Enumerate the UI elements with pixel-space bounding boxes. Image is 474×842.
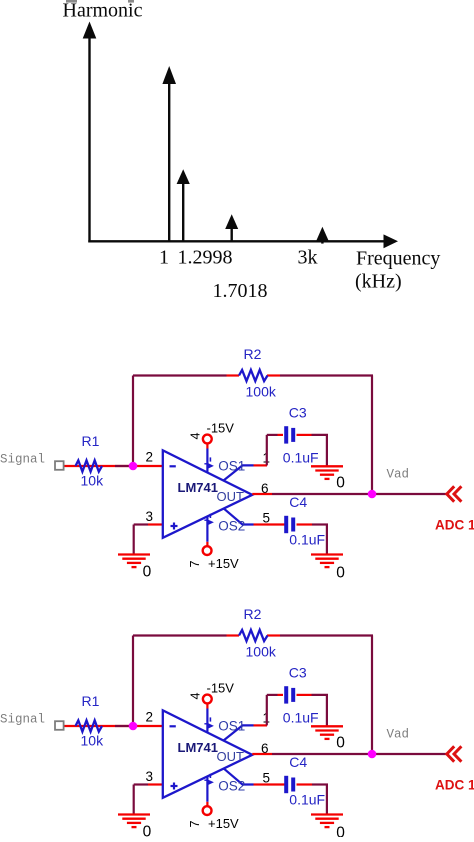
svg-text:Vad: Vad: [387, 727, 410, 741]
svg-text:0: 0: [336, 734, 345, 751]
pin 1 OS1 (circuit 1): [224, 465, 254, 480]
pin 4 V- (circuit 1): [206, 449, 208, 473]
svg-text:5: 5: [263, 770, 271, 785]
svg-text:0: 0: [336, 474, 345, 491]
svg-text:C3: C3: [289, 404, 307, 420]
svg-text:0: 0: [143, 563, 152, 580]
wire R2 right lead (circuit 2): [267, 634, 280, 636]
wire feedback right vertical (circuit 1): [371, 376, 373, 495]
svg-text:OUT: OUT: [217, 489, 245, 504]
svg-text:LM741: LM741: [178, 480, 218, 495]
resistor R2 (circuit 1): [239, 370, 268, 381]
pin 4 V- (circuit 2): [206, 709, 208, 733]
svg-text:4: 4: [189, 692, 203, 699]
wire C3 row (circuit 2): [267, 694, 278, 696]
wire feedback top (R2 net) (circuit 2): [133, 634, 227, 636]
svg-text:100k: 100k: [246, 644, 277, 660]
svg-text:0.1uF: 0.1uF: [289, 531, 325, 547]
svg-text:1.7018: 1.7018: [213, 280, 268, 302]
svg-text:LM741: LM741: [178, 740, 218, 755]
wire feedback left vertical (circuit 2): [132, 636, 134, 727]
svg-text:0.1uF: 0.1uF: [289, 791, 325, 807]
resistor R2 (circuit 2): [239, 630, 268, 641]
pin OS1 marker (circuit 2): [209, 717, 211, 721]
spectrum x-axis: [88, 240, 384, 242]
node junction Vad (circuit 1): [368, 490, 377, 499]
wire input row pin2 (circuit 1): [63, 465, 163, 467]
svg-text:+15V: +15V: [208, 556, 239, 571]
harmonic arrow 4 at 3k: [321, 238, 323, 244]
svg-text:C3: C3: [289, 664, 307, 680]
wire C4 to ground (circuit 1): [326, 525, 328, 554]
svg-text:2: 2: [146, 709, 154, 724]
node junction Vad (circuit 2): [368, 750, 377, 759]
pin 7 V+ (circuit 1): [206, 516, 208, 541]
svg-text:-15V: -15V: [207, 681, 235, 696]
wire feedback top (R2 net) (circuit 1): [133, 374, 227, 376]
svg-text:4: 4: [189, 432, 203, 439]
svg-text:OS1: OS1: [218, 719, 245, 734]
capacitor C4 (circuit 2): [284, 776, 288, 793]
off-page connector ADC 1 (circuit 2): [447, 746, 454, 761]
ground G2 (circuit 1): [311, 465, 343, 467]
node junction input (circuit 1): [129, 462, 138, 471]
wire R2 left lead (circuit 1): [227, 374, 240, 376]
ground G1 (circuit 2): [118, 813, 150, 815]
svg-text:7: 7: [188, 560, 202, 567]
wire C3 row (circuit 1): [267, 434, 278, 436]
wire pin3 row (circuit 2): [134, 783, 148, 785]
wire feedback left vertical (circuit 1): [132, 376, 134, 467]
port Signal (circuit 1): [55, 461, 64, 470]
svg-text:OS1: OS1: [218, 459, 245, 474]
pin 5 OS2 (circuit 2): [224, 768, 254, 784]
pin OS2 marker (circuit 2): [209, 774, 211, 778]
svg-text:C4: C4: [289, 494, 307, 510]
pin OS1 marker (circuit 1): [209, 457, 211, 461]
wire output pin6 (circuit 2): [252, 753, 272, 755]
svg-text:0: 0: [336, 824, 345, 837]
svg-text:2: 2: [146, 449, 154, 464]
off-page connector ADC 1 (circuit 1): [447, 486, 454, 501]
power +15V bubble (circuit 1): [203, 546, 212, 555]
power +15V bubble (circuit 2): [203, 806, 212, 815]
svg-text:-15V: -15V: [207, 421, 235, 436]
svg-text:+15V: +15V: [208, 816, 239, 831]
svg-text:ADC 1: ADC 1: [435, 777, 474, 792]
svg-text:3: 3: [146, 769, 154, 784]
svg-text:1: 1: [159, 247, 169, 269]
svg-text:0: 0: [143, 823, 152, 837]
svg-text:ADC 1: ADC 1: [435, 517, 474, 532]
pin 1 OS1 (circuit 2): [224, 725, 254, 740]
wire R2 right lead (circuit 1): [267, 374, 280, 376]
svg-text:0.1uF: 0.1uF: [283, 450, 319, 466]
capacitor C4 (circuit 1): [284, 516, 288, 533]
harmonic arrow 1 (fundamental): [168, 83, 170, 241]
wire C3 to ground (circuit 2): [326, 695, 328, 726]
svg-text:C4: C4: [289, 754, 307, 770]
svg-text:10k: 10k: [81, 473, 105, 489]
ground G3 (circuit 2): [311, 813, 343, 815]
wire C3 to ground (circuit 1): [326, 435, 328, 466]
pin 7 V+ (circuit 2): [206, 776, 208, 801]
svg-text:OUT: OUT: [217, 749, 245, 764]
svg-text:OS2: OS2: [218, 518, 245, 533]
svg-text:100k: 100k: [246, 384, 277, 400]
svg-text:OS2: OS2: [218, 778, 245, 793]
wire C4 row (circuit 2): [267, 783, 285, 785]
svg-text:3: 3: [146, 509, 154, 524]
capacitor C3 (circuit 1): [284, 426, 288, 443]
wire feedback right vertical (circuit 2): [371, 636, 373, 755]
wire output pin6 (circuit 1): [252, 493, 272, 495]
wire R2 left lead (circuit 2): [227, 634, 240, 636]
ground G2 (circuit 2): [311, 725, 343, 727]
harmonic arrow 3: [230, 228, 232, 241]
svg-text:Frequency: Frequency: [356, 248, 440, 270]
svg-text:0: 0: [336, 564, 345, 581]
svg-text:10k: 10k: [81, 733, 105, 749]
svg-text:3k: 3k: [298, 247, 318, 269]
svg-text:Harmonic: Harmonic: [63, 0, 143, 22]
op-amp U1 LM741 (circuit 1): [163, 450, 253, 538]
svg-text:5: 5: [263, 510, 271, 525]
svg-text:1.2998: 1.2998: [178, 247, 233, 269]
spectrum y-axis: [88, 37, 90, 243]
power -15V bubble (circuit 1): [203, 435, 212, 444]
resistor R1 (circuit 2): [76, 720, 103, 731]
ground G3 (circuit 1): [311, 553, 343, 555]
svg-text:R2: R2: [244, 606, 262, 622]
wire C4 to ground (circuit 2): [326, 785, 328, 814]
capacitor C3 (circuit 2): [284, 686, 288, 703]
wire pin1 riser (circuit 2): [266, 695, 268, 726]
svg-text:R2: R2: [244, 346, 262, 362]
svg-text:R1: R1: [82, 433, 100, 449]
harmonic arrow 2: [182, 183, 184, 241]
svg-text:(kHz): (kHz): [355, 271, 402, 293]
node junction input (circuit 2): [129, 722, 138, 731]
svg-text:7: 7: [188, 820, 202, 827]
power -15V bubble (circuit 2): [203, 695, 212, 704]
svg-text:Signal: Signal: [0, 713, 45, 727]
wire C4 row (circuit 1): [267, 523, 285, 525]
port Signal (circuit 2): [55, 721, 64, 730]
op-amp U1 LM741 (circuit 2): [163, 710, 253, 798]
wire pin3 row (circuit 1): [134, 523, 148, 525]
pin 5 OS2 (circuit 1): [224, 508, 254, 524]
wire input row pin2 (circuit 2): [63, 725, 163, 727]
svg-text:Vad: Vad: [387, 467, 410, 481]
clipped text remnants top edge: [66, 0, 77, 3]
svg-text:0.1uF: 0.1uF: [283, 710, 319, 726]
pin OS2 marker (circuit 1): [209, 514, 211, 518]
ground G1 (circuit 1): [118, 553, 150, 555]
svg-text:R1: R1: [82, 693, 100, 709]
wire pin1 riser (circuit 1): [266, 435, 268, 466]
svg-text:Signal: Signal: [0, 453, 45, 467]
resistor R1 (circuit 1): [76, 460, 103, 471]
